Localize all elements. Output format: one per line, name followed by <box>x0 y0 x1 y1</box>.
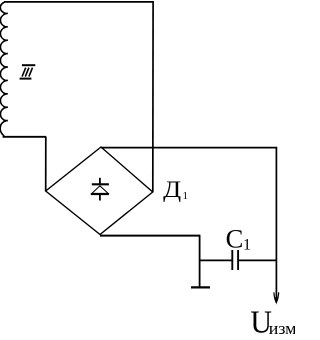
terminal bar <box>191 286 210 288</box>
svg-text:C: C <box>226 224 244 254</box>
wire coil bottom horizontal <box>3 136 47 138</box>
capacitor C1 plates <box>231 250 233 270</box>
svg-text:1: 1 <box>243 237 251 254</box>
svg-text:Д: Д <box>163 177 181 202</box>
svg-text:1: 1 <box>182 190 188 202</box>
wire mid vertical (to terminal bar) <box>199 236 201 287</box>
svg-text:изм: изм <box>269 319 295 335</box>
wire right vertical (down to bridge right vertex) <box>152 1 154 192</box>
wire output right vertical with arrow <box>275 148 277 299</box>
wire output top horizontal (bridge top vertex to right edge) <box>101 147 277 149</box>
wire top horizontal (coil top to right vertical) <box>4 1 154 3</box>
label D1 (Д₁) <box>163 177 181 202</box>
wire capacitor left <box>200 259 232 261</box>
inductor L1 winding arcs <box>0 2 6 136</box>
diode symbol inside bridge <box>91 178 109 201</box>
wire left vertical (down to bridge left vertex) <box>45 137 47 191</box>
winding label III (roman numeral, italic) <box>20 65 36 78</box>
wire bridge bottom horizontal <box>100 235 200 237</box>
wire capacitor right <box>239 259 277 261</box>
arrowhead down <box>274 292 276 303</box>
inductor cusp ticks <box>4 13 8 121</box>
bridge rectifier diamond <box>46 147 153 235</box>
label U_izm <box>250 304 272 340</box>
